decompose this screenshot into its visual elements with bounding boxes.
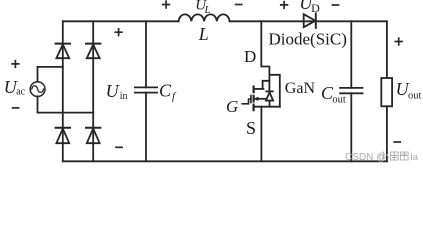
node - sign of U_in [115,146,123,148]
wire C_f top lead [145,21,147,87]
svg-text:C: C [159,81,172,101]
wire top rail right segment [230,20,387,22]
svg-text:f: f [172,91,177,103]
AC source U_ac [30,82,45,97]
wire gate lead [242,99,251,104]
wire load bottom lead [386,106,388,161]
inductor L [179,14,230,21]
transistor Q1 gate plate [250,95,252,102]
diode U_D SiC boost diode [304,13,316,28]
svg-text:CSDN @: CSDN @ [345,152,386,163]
svg-text:ac: ac [16,87,25,98]
node - sign of U_D [332,4,340,6]
wire body stub [254,98,267,100]
wire load top lead [386,21,388,78]
wire source line [254,106,280,108]
wire drain stub [254,88,264,90]
wire drain jog [263,81,270,89]
wire bridge right leg [92,21,94,161]
wire source down lead [260,107,262,162]
wire C_out bottom lead [350,93,352,161]
svg-text:L: L [198,24,209,44]
svg-text:GaN: GaN [285,80,316,97]
node + sign of U_D [280,1,288,9]
svg-text:D: D [311,1,320,15]
svg-text:Diode(SiC): Diode(SiC) [269,29,347,48]
svg-text:G: G [226,97,238,116]
transistor Q1 GaN channel segment 2 [253,96,255,102]
svg-text:U: U [106,81,120,101]
wire AC bottom lead [38,96,94,112]
svg-text:L: L [204,4,211,16]
node - sign of U_out [393,141,401,143]
wire body-diode branch [269,75,279,107]
svg-text:la: la [411,152,419,163]
capacitor C_out [340,88,362,93]
node + sign of U_out [395,37,403,45]
node - sign of U_ac [12,107,20,109]
diode body diode of Q1 [266,91,273,106]
svg-text:in: in [120,91,128,102]
svg-text:out: out [332,95,346,106]
diode D2 bridge top-right [86,44,100,59]
diode D3 bridge bottom-left [56,128,70,144]
node + sign of U_in [114,28,122,36]
diode D4 bridge bottom-right [86,128,100,144]
wire bridge left leg [62,21,64,161]
svg-text:D: D [244,47,256,66]
wire bottom rail [63,160,387,162]
node + sign of U_L [162,0,170,8]
svg-text:out: out [408,91,422,102]
wire C_out top lead [350,21,352,88]
wire node D drop [261,21,269,91]
diode D1 bridge top-left [56,44,70,59]
resistor load R [381,78,392,106]
transistor Q1 GaN channel segment 3 [253,105,255,111]
svg-text:S: S [246,118,256,138]
transistor Q1 GaN channel segment 1 [253,87,255,93]
arrow body contact [255,97,259,100]
watermark CSDN [345,152,419,164]
wire top rail left segment [63,20,179,22]
wire C_f bottom lead [145,93,147,162]
wire AC top lead [38,67,63,82]
capacitor C_f [135,87,157,92]
node + sign of U_ac [11,60,19,68]
node - sign of U_L [235,4,243,6]
